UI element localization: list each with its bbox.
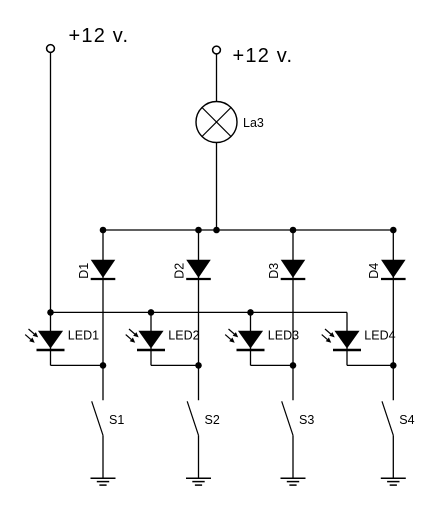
junction D4-bus <box>390 227 397 234</box>
svg-text:LED1: LED1 <box>68 328 99 342</box>
wire LED2 column <box>150 312 152 365</box>
junction LED1-D1 column <box>100 362 107 369</box>
LED LED1 <box>37 331 65 350</box>
ground 3 <box>281 478 306 485</box>
svg-text:D1: D1 <box>77 263 91 279</box>
LED LED4 <box>333 331 361 350</box>
wire D3 column <box>292 230 294 400</box>
junction LED1-bus <box>47 309 54 316</box>
LED LED3 <box>237 331 265 350</box>
junction LED2-bus <box>148 309 155 316</box>
ground 2 <box>186 478 211 485</box>
ground 1 <box>91 478 116 485</box>
LED LED2 <box>137 331 165 350</box>
junction LED3-bus <box>247 309 254 316</box>
LED3 arrows <box>225 329 238 343</box>
junction D2-bus <box>195 227 202 234</box>
switch S1 <box>92 401 103 435</box>
wire left rail from terminal to LED bus <box>50 53 52 313</box>
junction LED4-D4 column <box>390 362 397 369</box>
diode D1 <box>91 260 116 279</box>
junction LED3-D3 column <box>290 362 297 369</box>
junction D1-bus <box>100 227 107 234</box>
wire terminal to lamp <box>216 54 218 101</box>
terminal +12V left <box>47 45 55 53</box>
LED1 arrows <box>25 329 38 343</box>
wire main bus <box>103 229 393 231</box>
LED4 arrows <box>322 329 335 343</box>
svg-text:D4: D4 <box>367 263 381 279</box>
wire LED3 column <box>250 312 252 365</box>
svg-text:D3: D3 <box>267 263 281 279</box>
wire LED3 jog to D3 column <box>251 364 294 366</box>
svg-text:D2: D2 <box>172 263 186 279</box>
svg-text:S2: S2 <box>205 413 220 427</box>
svg-text:+12 v.: +12 v. <box>69 25 130 47</box>
svg-text:LED3: LED3 <box>268 328 299 342</box>
wire D4 column <box>392 230 394 400</box>
wire S2 to ground <box>198 435 200 478</box>
wire LED1 jog to D1 column <box>51 364 104 366</box>
ground 4 <box>381 478 406 485</box>
svg-text:S1: S1 <box>109 413 124 427</box>
junction lamp-bus <box>213 227 220 234</box>
wire LED2 jog to D2 column <box>151 364 199 366</box>
svg-text:LED4: LED4 <box>364 328 395 342</box>
svg-text:S3: S3 <box>299 413 314 427</box>
wire D2 column <box>198 230 200 400</box>
svg-text:S4: S4 <box>399 413 414 427</box>
wire LED4 jog to D4 column <box>347 364 393 366</box>
svg-text:La3: La3 <box>243 116 264 130</box>
lamp La3 <box>196 102 237 143</box>
svg-text:+12 v.: +12 v. <box>233 45 294 67</box>
wire LED1 column <box>50 312 52 365</box>
diode D2 <box>186 260 211 279</box>
LED2 arrows <box>126 329 139 343</box>
wire S3 to ground <box>292 435 294 478</box>
junction LED2-D2 column <box>195 362 202 369</box>
wire LED4 column <box>346 312 348 365</box>
switch S3 <box>282 401 293 435</box>
wire S1 to ground <box>102 435 104 478</box>
wire LED bus <box>51 311 348 313</box>
terminal +12V right <box>213 46 221 54</box>
switch S4 <box>382 401 393 435</box>
switch S2 <box>187 401 198 435</box>
wire lamp to bus <box>216 143 218 231</box>
wire S4 to ground <box>392 435 394 478</box>
wire D1 column <box>102 230 104 400</box>
diode D4 <box>381 260 406 279</box>
junction D3-bus <box>290 227 297 234</box>
diode D3 <box>281 260 306 279</box>
svg-text:LED2: LED2 <box>168 328 199 342</box>
